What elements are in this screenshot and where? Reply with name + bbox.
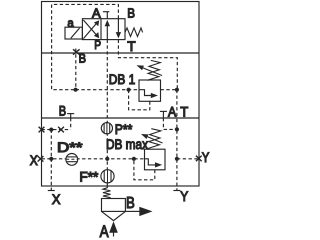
port A inlet line with up arrow <box>113 229 115 237</box>
relief valve DB1 internal arrowhead <box>151 93 158 98</box>
wire A-branch below boundary2 dashed <box>163 118 177 129</box>
port X bottom tick <box>48 190 55 192</box>
solenoid a box <box>65 27 82 39</box>
svg-text:X: X <box>52 192 61 207</box>
node junction dot DB1 pilot tap <box>127 88 131 92</box>
pilot valve left square crossed arrow 1 <box>83 23 97 39</box>
main cartridge poppet seat V <box>102 211 126 220</box>
measuring point D** circle <box>66 154 78 166</box>
svg-text:P**: P** <box>115 122 133 137</box>
relief valve DBmax internal flow path <box>145 159 156 165</box>
svg-text:B: B <box>59 103 66 118</box>
port Y bottom tick <box>173 190 180 192</box>
svg-text:P: P <box>94 38 101 52</box>
relief valve DBmax adjustment arrow <box>146 136 163 143</box>
measuring point P** circle <box>101 123 112 134</box>
wire B-channel drop from plug at boundary1 to DB1 inlet line <box>75 49 77 90</box>
svg-text:A: A <box>100 223 109 240</box>
wire P pilot supply vertical dashed <box>106 40 108 170</box>
port A stub of pilot valve with tick <box>106 12 108 19</box>
wire X row2 dashed <box>42 158 145 160</box>
relief valve DB1 adjustment arrow <box>141 67 162 75</box>
pilot valve right square arrow P-A up <box>106 25 108 40</box>
section boundary line 2 <box>42 117 200 119</box>
svg-text:DB max: DB max <box>106 137 148 152</box>
svg-text:T: T <box>180 104 188 119</box>
pilot valve return spring <box>125 28 143 37</box>
svg-text:T: T <box>127 39 136 54</box>
svg-text:X: X <box>30 153 38 168</box>
plug mark X on B channel at boundary1 <box>73 49 80 54</box>
node junction dot A-branch on Y line <box>175 127 179 131</box>
node junction dot row2 left <box>49 157 53 161</box>
section boundary line 1 <box>42 52 200 54</box>
svg-text:A: A <box>168 104 177 119</box>
svg-text:D**: D** <box>57 140 83 155</box>
node junction dot DBmax pilot tap <box>132 157 136 161</box>
relief valve DBmax body <box>145 149 166 170</box>
port B flow arrow of cartridge <box>125 210 140 212</box>
pilot valve right square arrow B-T down <box>117 19 119 34</box>
port B plugged stub into section3 (tick) with label <box>67 113 74 115</box>
main cartridge spring <box>103 188 111 199</box>
node junction dot T drain / DB1 outlet <box>175 88 179 92</box>
wire DB1 pilot loop dashed <box>129 90 150 110</box>
relief valve DBmax internal arrowhead <box>155 162 162 167</box>
pilot valve body 4/2 directional <box>82 19 125 40</box>
wire DBmax pilot loop dashed <box>134 159 155 180</box>
node junction dot P line at X row <box>105 157 109 161</box>
wire F point to main spring <box>106 183 108 188</box>
node junction dot B/DB1 inlet <box>74 88 78 92</box>
wire X row1 dashed <box>42 129 71 131</box>
node junction dot DBmax outlet on Y line <box>175 157 179 161</box>
svg-text:B: B <box>127 6 135 21</box>
svg-text:A: A <box>92 6 101 21</box>
wire pilot-valve T drain route dashed (valve T down, right, down to Y line) <box>118 40 177 90</box>
pilot valve position divider <box>100 19 102 40</box>
port A plugged stub at boundary2 (tick) <box>160 110 167 112</box>
measuring point F** circle <box>101 170 114 183</box>
relief valve DB1 internal flow path <box>139 90 152 96</box>
svg-text:a: a <box>67 16 74 30</box>
svg-text:Y: Y <box>202 150 210 165</box>
wire X pilot vertical dashed to bottom port <box>50 130 52 191</box>
wire DB1 inlet line dashed <box>76 89 139 91</box>
wire pilot-valve B route dashed (valve B up, across top, down left, to DB1 inlet) <box>52 4 119 89</box>
pilot valve left square crossed arrow 2 <box>83 20 97 36</box>
relief valve DBmax adjustable spring <box>148 129 161 149</box>
relief valve DB1 body <box>139 80 161 101</box>
main cartridge body <box>102 199 126 212</box>
solenoid a diagonal <box>71 28 80 38</box>
relief valve DB1 adjustable spring <box>147 60 160 80</box>
svg-text:B: B <box>126 195 135 212</box>
plug mark x at right edge Y port <box>196 156 202 162</box>
svg-text:DB 1: DB 1 <box>109 72 136 87</box>
wire DB1 outlet to drain line <box>161 89 177 91</box>
plug mark x row1 mid <box>58 127 64 133</box>
svg-text:B: B <box>79 52 86 66</box>
wire Y drain vertical dashed <box>176 90 178 191</box>
plug mark x row1 at left edge <box>39 127 45 133</box>
svg-text:Y: Y <box>180 189 188 204</box>
svg-text:F**: F** <box>79 169 98 184</box>
plug mark x row2 at left edge <box>38 156 44 162</box>
manifold outline outer box <box>42 2 200 187</box>
node junction dot row1 <box>49 128 53 132</box>
port Y side exit dashed <box>177 158 199 160</box>
